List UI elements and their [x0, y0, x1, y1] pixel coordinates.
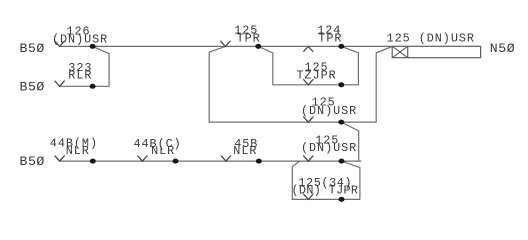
svg-text:(DN)USR: (DN)USR	[301, 141, 357, 155]
svg-text:N5Ø: N5Ø	[490, 41, 515, 56]
svg-text:NLR: NLR	[66, 144, 90, 158]
svg-text:TPR: TPR	[318, 31, 342, 45]
svg-text:125 (DN)USR: 125 (DN)USR	[387, 31, 475, 45]
svg-text:(DN) TJPR: (DN) TJPR	[292, 183, 359, 197]
svg-text:B5Ø: B5Ø	[20, 41, 45, 56]
svg-text:NLR: NLR	[233, 144, 257, 158]
svg-text:(DN)USR: (DN)USR	[301, 104, 357, 118]
svg-text:TZJPR: TZJPR	[297, 69, 337, 83]
svg-text:B5Ø: B5Ø	[20, 79, 45, 94]
svg-text:NLR: NLR	[151, 144, 175, 158]
svg-text:TPR: TPR	[237, 31, 261, 45]
svg-text:(DN)USR: (DN)USR	[52, 32, 108, 46]
svg-text:B5Ø: B5Ø	[20, 154, 45, 169]
svg-text:RLR: RLR	[68, 68, 92, 82]
